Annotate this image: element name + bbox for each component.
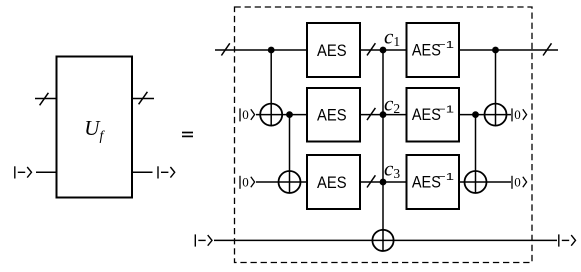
vertical wire control row1 to target row2 (left) [270,50,272,126]
box AES-1 row3 [407,155,460,209]
slash bundle mark right output [139,92,148,105]
CNOT target row4 [372,230,393,251]
control dot row1 left [268,47,275,54]
svg-text:0: 0 [242,107,249,122]
svg-text:0: 0 [514,107,521,122]
box AES-1 row2 [407,88,460,142]
svg-text:−1: −1 [437,39,454,51]
dashed enclosure box [235,7,533,263]
ket |0> row3 right [512,176,527,189]
slash bundle mark row3 middle [367,175,375,187]
node c3 dot [380,179,387,186]
CNOT target row2 left [260,104,282,126]
svg-text:AES: AES [317,42,347,60]
box U_f [57,57,133,198]
vertical wire control row2 to target row3 (left) [289,115,291,194]
svg-text:−1: −1 [437,171,454,183]
vertical wire c1-c2-c3 to target row4 [382,50,384,251]
control dot row1 right [492,47,499,54]
equals sign [182,132,193,134]
ket |-> bottom-left input [15,166,32,178]
slash bundle mark row1 middle [367,43,375,55]
wire row 1 [215,49,558,51]
slash bundle mark left input [40,93,49,106]
node c1 dot [380,47,387,54]
svg-text:AES: AES [317,107,347,125]
ket |0> row2 right [512,108,527,121]
svg-text:−1: −1 [437,104,454,116]
slash bundle mark row2 middle [367,108,375,120]
control dot row2 right [472,111,479,118]
ket |-> row4 right [559,234,576,246]
wire row 2 [256,114,511,116]
wire row 3 [256,181,511,183]
ket |0> row3 left [240,176,255,189]
vertical wire control row1 to target row2 (right) [495,50,497,126]
ket |0> row2 left [240,108,255,121]
wire bottom-right output [132,171,153,173]
CNOT target row2 right [485,104,507,126]
CNOT target row3 left [279,171,301,193]
control dot row2 left [286,111,293,118]
box AES row2 [307,88,360,142]
ket |-> row4 left [195,234,212,246]
wire bottom-left input [36,171,57,173]
wire row 4 [214,239,557,241]
slash bundle mark row1 exit [543,43,551,55]
ket |-> bottom-right output [158,166,175,178]
box AES-1 row1 [407,23,460,77]
box AES row1 [307,23,360,77]
svg-text:AES: AES [317,174,347,192]
box AES row3 [307,155,360,209]
wire top-left input (bundle) [35,98,57,100]
CNOT target row3 right [465,171,487,193]
wire top-right output (bundle) [131,98,154,100]
vertical wire control row2 to target row3 (right) [475,115,477,194]
svg-text:0: 0 [242,174,249,189]
svg-text:0: 0 [514,174,521,189]
node c2 dot [380,111,387,118]
slash bundle mark row1 entry [221,43,229,55]
